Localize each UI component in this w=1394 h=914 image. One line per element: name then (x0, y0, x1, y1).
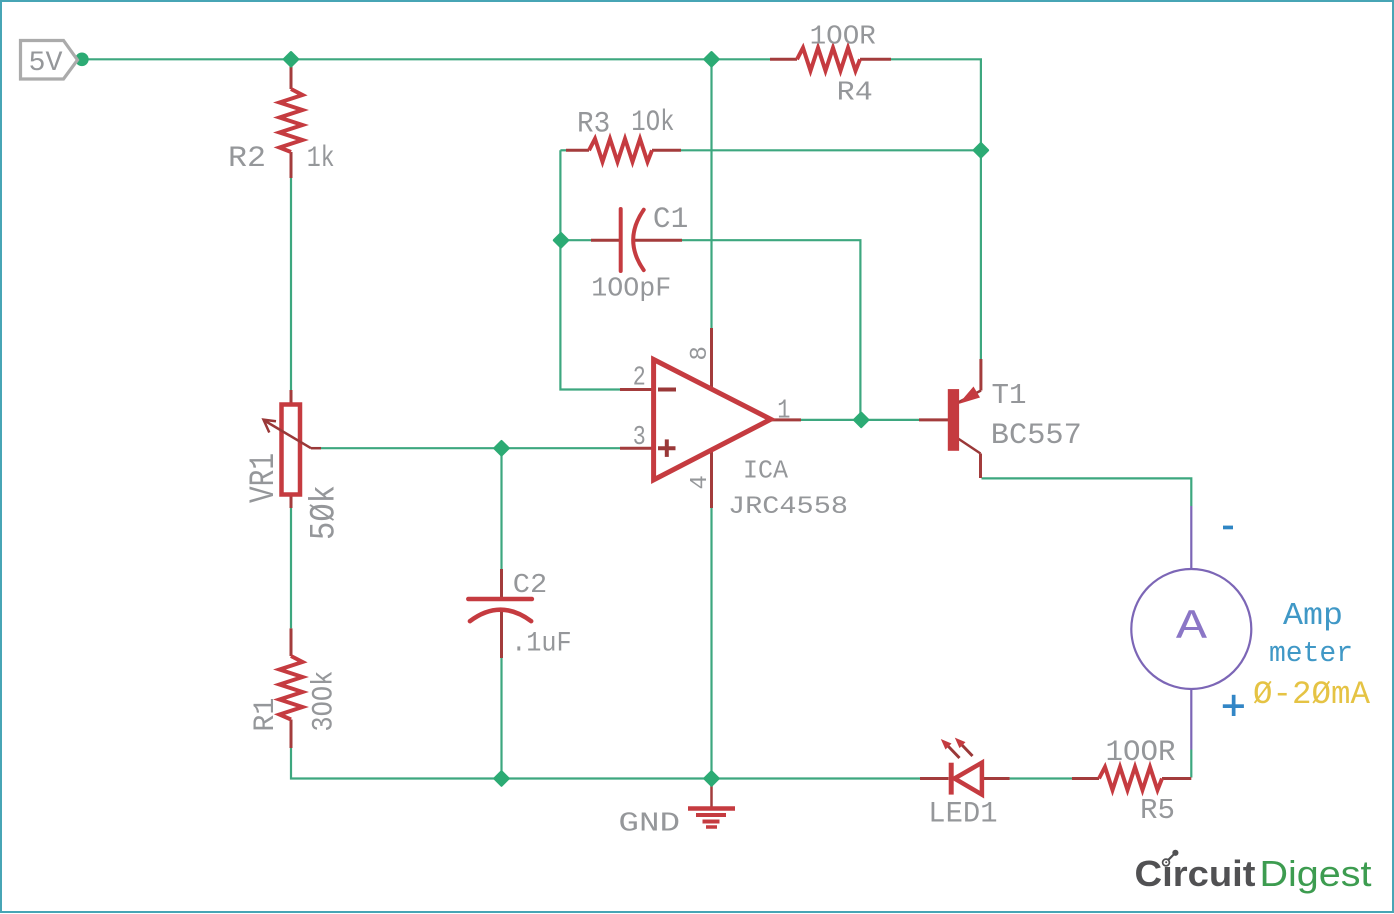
svg-text:1OOpF: 1OOpF (591, 275, 671, 305)
svg-text:1k: 1k (307, 142, 335, 176)
svg-text:4: 4 (687, 475, 714, 489)
svg-text:Digest: Digest (1260, 853, 1372, 894)
svg-text:R3: R3 (577, 108, 610, 142)
svg-text:1OOR: 1OOR (810, 23, 876, 53)
svg-text:meter: meter (1269, 637, 1353, 670)
svg-text:GND: GND (618, 810, 680, 840)
svg-text:3: 3 (633, 423, 646, 453)
svg-text:2: 2 (633, 364, 646, 394)
svg-text:R5: R5 (1140, 794, 1175, 827)
svg-text:.1uF: .1uF (511, 628, 572, 659)
svg-text:ICA: ICA (743, 455, 788, 485)
svg-text:T1: T1 (992, 379, 1027, 412)
svg-text:BC557: BC557 (991, 419, 1082, 453)
svg-text:5V: 5V (29, 48, 63, 79)
svg-text:R2: R2 (228, 142, 266, 176)
svg-text:1OOR: 1OOR (1106, 736, 1176, 770)
svg-text:R1: R1 (249, 698, 283, 732)
svg-text:5Øk: 5Øk (305, 485, 345, 540)
svg-text:1Ok: 1Ok (631, 106, 674, 140)
svg-text:JRC4558: JRC4558 (728, 492, 848, 521)
svg-text:R4: R4 (837, 78, 873, 108)
svg-text:LED1: LED1 (928, 798, 997, 832)
svg-text:Amp: Amp (1283, 599, 1343, 634)
svg-text:8: 8 (687, 346, 714, 360)
svg-text:3OOk: 3OOk (307, 671, 341, 732)
svg-text:1: 1 (777, 397, 790, 427)
svg-text:A: A (1176, 603, 1208, 651)
svg-text:Ø-2ØmA: Ø-2ØmA (1253, 676, 1370, 713)
svg-text:C2: C2 (513, 571, 547, 601)
svg-text:Cırcuit: Cırcuit (1135, 853, 1256, 894)
svg-text:VR1: VR1 (244, 453, 284, 503)
svg-text:C1: C1 (653, 203, 688, 237)
